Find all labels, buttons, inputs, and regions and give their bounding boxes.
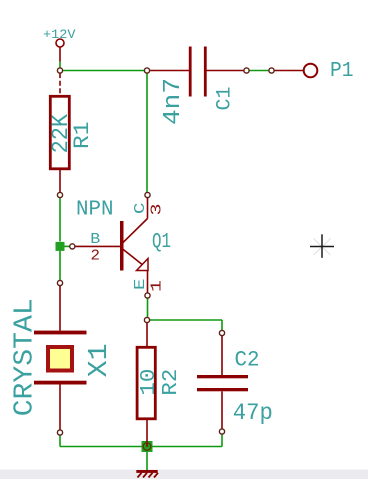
svg-text:X1: X1 <box>85 343 115 377</box>
svg-text:3: 3 <box>149 204 166 216</box>
svg-text:+12V: +12V <box>43 27 76 42</box>
svg-text:1: 1 <box>148 280 165 292</box>
svg-text:Q1: Q1 <box>152 231 171 254</box>
svg-text:R2: R2 <box>160 369 183 396</box>
svg-text:2: 2 <box>91 247 101 264</box>
svg-text:4n7: 4n7 <box>160 78 187 125</box>
svg-text:10: 10 <box>138 369 161 396</box>
svg-text:C2: C2 <box>235 348 260 373</box>
svg-text:P1: P1 <box>330 60 354 83</box>
svg-text:47p: 47p <box>233 400 273 426</box>
svg-text:NPN: NPN <box>76 199 114 222</box>
svg-text:B: B <box>90 231 100 248</box>
svg-text:R1: R1 <box>70 122 95 150</box>
svg-text:E: E <box>132 279 149 291</box>
svg-text:C1: C1 <box>214 87 237 111</box>
svg-text:C: C <box>132 203 149 215</box>
svg-text:CRYSTAL: CRYSTAL <box>11 298 41 416</box>
